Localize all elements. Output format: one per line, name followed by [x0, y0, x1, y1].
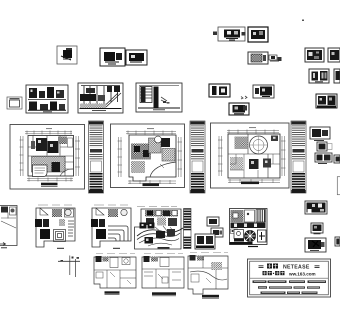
floor plan 1 frame — [10, 125, 85, 190]
plan 2 upper-left checker cluster — [131, 144, 151, 160]
plan 1 bottom dimension lines — [27, 179, 73, 181]
plan 1 right dimension column — [76, 136, 79, 176]
plan 3 lower-right dark blob — [263, 159, 271, 168]
floor plan A (left edge) — [0, 206, 17, 248]
plan 3 left dimension column — [219, 136, 222, 176]
plan 3 top dimension lines — [227, 131, 279, 133]
elevation box M — [78, 83, 123, 113]
floor plan G — [142, 254, 184, 296]
svg-text:ww.163.com: ww.163.com — [288, 271, 316, 276]
detail box Q2 — [305, 238, 326, 252]
plan D top busy band — [145, 210, 178, 217]
plan 2 right dimension column — [179, 137, 182, 177]
detail box S — [310, 127, 330, 141]
small detail box m1 — [207, 217, 219, 226]
plan 1 outline — [28, 136, 74, 177]
plan 2 title label — [143, 184, 160, 187]
title line 1: = wangyi NETEASE = — [259, 264, 320, 271]
plan 3 upper-left hatch square — [235, 137, 248, 150]
detail box H — [328, 48, 340, 62]
ceiling plan D — [135, 207, 192, 250]
detail box I — [309, 69, 329, 83]
title line 2: wangyi jianzhu www.163.com — [263, 271, 316, 276]
empty box at right edge — [337, 177, 340, 195]
floor plan H — [188, 253, 228, 299]
plan 1 top dimension lines — [25, 132, 72, 134]
detail box B1 — [100, 48, 125, 66]
desk and chair icons F — [269, 55, 282, 61]
title line 5 — [261, 292, 318, 295]
plan 3 title label — [241, 182, 259, 185]
title line 3 — [253, 280, 327, 283]
plan 3 lower-center dark blob — [249, 159, 259, 169]
plan 3 schedule strip — [291, 121, 306, 193]
axis datum symbol — [58, 256, 80, 278]
detail box P — [253, 85, 274, 98]
detail box S2 — [305, 201, 327, 214]
title block — [248, 259, 331, 297]
detail box C — [213, 27, 246, 41]
title divider — [250, 277, 328, 279]
svg-text:NETEASE: NETEASE — [283, 264, 310, 270]
floor plan 3 frame — [211, 123, 290, 188]
plan 1 left dimension column — [21, 136, 24, 176]
plan 3 bottom dimension lines — [228, 180, 280, 182]
plan D label — [158, 247, 170, 249]
title line 4 — [258, 286, 320, 289]
plan 1 center dark mass — [48, 141, 59, 153]
detail box m3 — [195, 234, 215, 249]
detail box T — [317, 142, 332, 151]
detail box J — [334, 69, 340, 83]
plan 1 title label — [41, 183, 58, 186]
plan 1 upper-left furniture — [36, 138, 47, 151]
plan 3 top-right bits — [271, 136, 278, 142]
plan 2 left dimension column — [119, 137, 122, 177]
stray dot — [302, 20, 304, 22]
floor plan E — [230, 209, 268, 247]
plan 2 schedule strip — [190, 121, 205, 193]
detail box G — [305, 48, 324, 62]
floor plan C — [91, 205, 131, 248]
section box L — [26, 85, 68, 113]
plan 3 lower-left tile — [230, 157, 243, 170]
plan D mid content — [146, 218, 154, 225]
plan 3 right dimension column — [282, 136, 285, 176]
plan D bottom-left dark mass — [145, 237, 154, 244]
plan 1 lower-right room curve — [60, 169, 73, 176]
plan D center dark patches — [156, 231, 165, 238]
plan 2 top dimension lines — [126, 132, 176, 134]
detail box A — [57, 46, 77, 64]
detail box B2 — [126, 50, 147, 65]
plan 1 schedule strip — [89, 121, 104, 193]
floor plan 2 frame — [111, 124, 185, 188]
plan D curved ceiling lines — [137, 228, 183, 236]
plan 3 big circle — [250, 136, 268, 154]
plan 1 tiled floor — [32, 157, 66, 173]
plan 1 upper-right hatch — [58, 137, 67, 145]
plan 3 outline — [228, 134, 280, 178]
floor plan F — [94, 254, 136, 295]
plan 2 center checker — [149, 138, 162, 153]
plan 1 dark blob in tiles — [52, 162, 61, 172]
detail boxes U and V — [315, 153, 340, 164]
plan 2 outline — [129, 135, 176, 181]
floor plan B — [35, 205, 75, 248]
plan 1 bottom-left bump room — [33, 165, 48, 177]
plan D right striped band — [184, 209, 192, 231]
detail box E — [248, 52, 268, 64]
detail box D — [248, 27, 268, 42]
plan D left furniture blocks — [140, 223, 147, 229]
plan 2 top-right dark corner — [161, 138, 170, 147]
plan 3 interior wall lines — [230, 154, 280, 178]
tiny angle marks — [241, 96, 247, 99]
plan 2 right hatch room — [162, 149, 175, 162]
detail box T2 — [311, 223, 323, 234]
detail box V2 — [335, 237, 340, 246]
detail box R — [316, 94, 337, 108]
plan 2 lower-right room curve — [150, 162, 176, 177]
small detail box m2 — [211, 228, 223, 237]
elevation box N — [136, 83, 182, 112]
detail box K — [7, 97, 22, 109]
plan 2 lower-left tile — [131, 161, 145, 173]
plan 2 bottom dimension lines — [128, 181, 176, 183]
detail box Q — [229, 103, 249, 115]
detail box O — [209, 84, 230, 97]
